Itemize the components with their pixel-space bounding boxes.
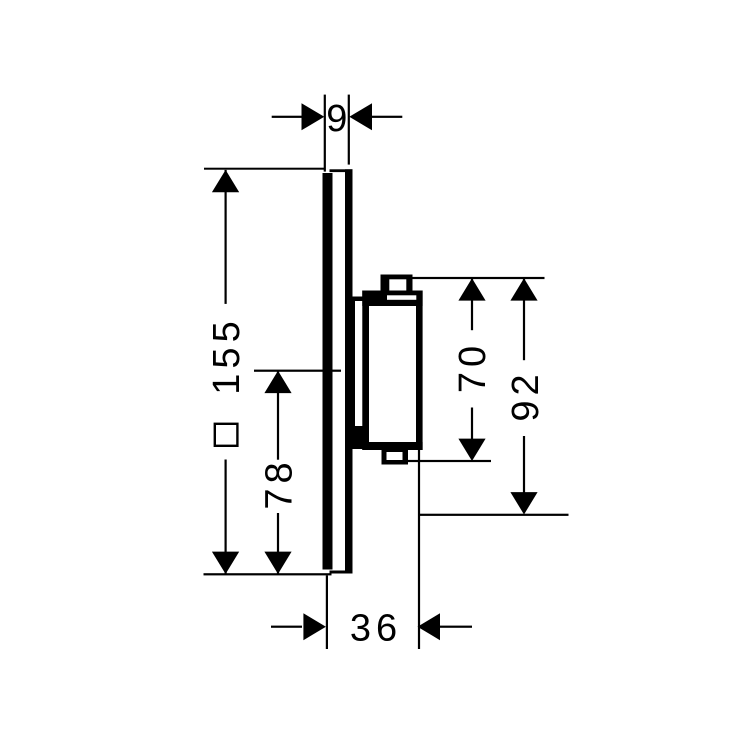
svg-text:92: 92 bbox=[505, 369, 547, 421]
svg-text:70: 70 bbox=[452, 341, 494, 393]
svg-text:9: 9 bbox=[326, 98, 347, 140]
svg-text:36: 36 bbox=[350, 607, 402, 649]
svg-text:155: 155 bbox=[206, 316, 248, 394]
svg-text:78: 78 bbox=[259, 457, 301, 509]
